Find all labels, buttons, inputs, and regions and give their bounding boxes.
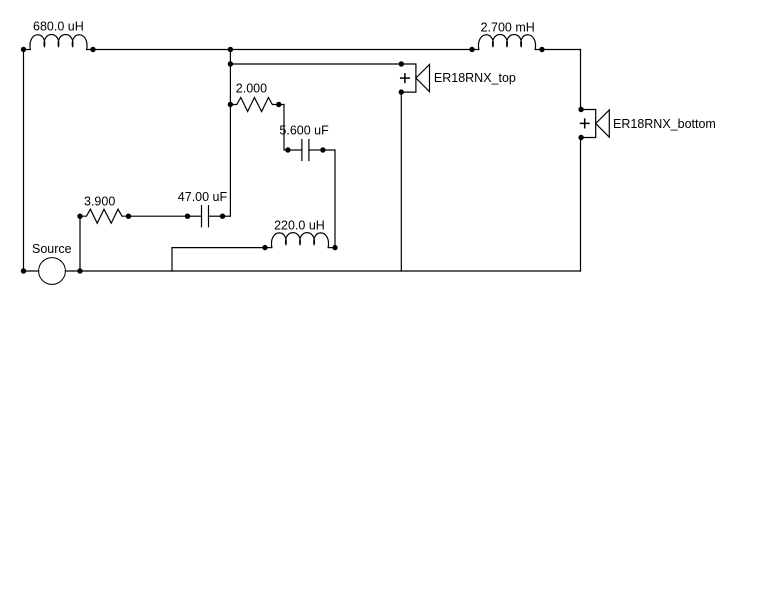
resistor 2.000 xyxy=(230,98,278,112)
svg-text:ER18RNX_bottom: ER18RNX_bottom xyxy=(613,117,716,131)
node: L1 left xyxy=(21,47,26,52)
wire: R1 to C1 xyxy=(129,215,188,217)
wire: R1 left vertical xyxy=(79,216,81,271)
wire: horizontal to top speaker xyxy=(230,63,401,65)
resistor 3.900 xyxy=(80,209,129,223)
node: C1 left xyxy=(185,214,190,219)
svg-text:5.600 uF: 5.600 uF xyxy=(279,124,329,138)
node: L1 right xyxy=(90,47,95,52)
wire: R2 output jog xyxy=(279,105,288,151)
node: source right xyxy=(77,268,82,273)
wire: C2 output down to L3 xyxy=(323,150,335,248)
node: L2 left xyxy=(469,47,474,52)
svg-text:47.00 uF: 47.00 uF xyxy=(178,190,228,204)
wire: right vertical upper xyxy=(580,50,582,110)
wire: bottom bus right of source xyxy=(65,270,580,272)
wire: right vertical lower xyxy=(580,138,582,272)
wire: node A vertical x=230.4 xyxy=(229,50,231,217)
node: C2 right xyxy=(320,147,325,152)
node: R2 right xyxy=(276,102,281,107)
node: C2 left xyxy=(285,147,290,152)
wire: top bus right of L2 xyxy=(542,49,581,51)
wire: L3 left to bottom bus xyxy=(172,248,265,271)
wire: top speaker negative vertical xyxy=(400,92,402,271)
node: R1 right xyxy=(126,214,131,219)
wire: top bus from L1 to L2 xyxy=(93,49,472,51)
wire: left vertical bus xyxy=(23,50,25,272)
node: bottom speaker plus xyxy=(578,107,583,112)
node: C1 right xyxy=(220,214,225,219)
svg-text:680.0 uH: 680.0 uH xyxy=(33,20,84,34)
source circle xyxy=(39,258,66,285)
node: source left xyxy=(21,268,26,273)
speaker ER18RNX_top symbol xyxy=(401,64,430,92)
inductor 680.0 uH xyxy=(24,35,94,50)
svg-text:2.700 mH: 2.700 mH xyxy=(481,21,535,35)
svg-text:2.000: 2.000 xyxy=(236,82,267,96)
wire: C1 output up to R2 xyxy=(223,215,231,217)
node: L2 right xyxy=(539,47,544,52)
speaker ER18RNX_bottom symbol xyxy=(581,110,610,138)
node: speaker wire junction xyxy=(228,61,233,66)
capacitor 47.00 uF xyxy=(188,206,223,227)
inductor 220.0 uH xyxy=(265,233,335,248)
node: L3 left xyxy=(262,245,267,250)
svg-text:ER18RNX_top: ER18RNX_top xyxy=(434,71,516,85)
node: top speaker minus xyxy=(399,89,404,94)
node: top speaker plus xyxy=(399,61,404,66)
node: top bus junction xyxy=(228,47,233,52)
svg-text:220.0 uH: 220.0 uH xyxy=(274,218,325,232)
svg-text:Source: Source xyxy=(32,242,72,256)
svg-text:3.900: 3.900 xyxy=(84,195,115,209)
inductor 2.700 mH xyxy=(472,35,542,50)
node: R2 left xyxy=(228,102,233,107)
node: bottom speaker minus xyxy=(578,135,583,140)
capacitor 5.600 uF xyxy=(288,140,323,161)
wire: bottom bus left of source xyxy=(24,270,39,272)
node: L3 right xyxy=(332,245,337,250)
node: R1 left xyxy=(77,214,82,219)
